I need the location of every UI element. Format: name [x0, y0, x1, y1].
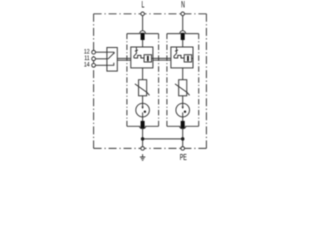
gas discharge tube F1 (module 1) [136, 103, 150, 117]
svg-text:L: L [142, 0, 145, 10]
varistor RV1 (module 1) [135, 80, 150, 96]
disconnector box U2 (module 2) [171, 47, 193, 68]
enclosure dash-dot border left [93, 14, 95, 149]
switch internals: contact 14 stub [107, 63, 114, 66]
plug contact bottom module 1 [140, 121, 146, 129]
svg-text:14: 14 [84, 62, 90, 68]
wires terminals 12 11 14 to switch box [95, 51, 107, 53]
terminal N circle [181, 12, 185, 16]
label 12 [84, 49, 90, 55]
varistor RV2 (module 2) [175, 80, 190, 96]
remote signalling switch box S1 [107, 48, 117, 72]
wire varistor to gas discharge tube module 1 [142, 96, 144, 104]
disconnector internals module 1 [134, 47, 153, 62]
svg-text:PE: PE [180, 153, 187, 163]
enclosure dash-dot border bottom [94, 147, 207, 149]
module 1 dashed box [127, 34, 159, 127]
wire N terminal down to top plug module 2 [182, 14, 184, 31]
ground symbol [140, 154, 145, 160]
wire GDT to bottom plug module 1 [142, 117, 144, 121]
terminal earth circle [141, 147, 145, 151]
label 11 [84, 56, 89, 62]
disconnector internals module 2 [174, 47, 193, 62]
label 14 [84, 62, 90, 68]
enclosure dash-dot border top [94, 13, 207, 15]
disconnector box U1 (module 1) [131, 47, 153, 68]
switch internals: contact 12 stub [107, 52, 114, 54]
wire bottom plug to junction module 2 [182, 129, 184, 147]
terminal L circle [141, 12, 145, 16]
svg-text:N: N [181, 0, 185, 10]
wire L terminal down to top plug module 1 [142, 14, 144, 31]
mechanical linkage double line: module 1 to module 2 [153, 58, 171, 60]
remote contact terminal circles 12 11 14 [92, 50, 96, 54]
label N [181, 0, 185, 10]
mechanical linkage double line: terminal box to module 1 [117, 58, 131, 60]
label L [142, 0, 145, 10]
label PE [180, 153, 187, 163]
plug contact bottom module 2 [180, 121, 186, 129]
switch internals: blade from 11 [107, 52, 115, 58]
wire GDT to bottom plug module 2 [182, 117, 184, 121]
wire disconnector to varistor module 2 [182, 68, 184, 80]
plug contact top module 1 [140, 31, 146, 40]
terminal PE circle [181, 147, 185, 151]
junction dot left [141, 137, 145, 141]
enclosure dash-dot border right [205, 14, 207, 149]
wire plug to disconnector box module 2 [182, 40, 184, 47]
bus wire between junctions [143, 138, 183, 140]
module 2 dashed box [167, 34, 199, 127]
svg-text:12: 12 [84, 49, 90, 55]
junction dot right [181, 137, 185, 141]
svg-text:11: 11 [84, 56, 89, 62]
wire plug to disconnector box module 1 [142, 40, 144, 47]
gas discharge tube F2 (module 2) [176, 103, 190, 117]
wire bottom plug to junction module 1 [142, 129, 144, 147]
plug contact top module 2 [180, 31, 186, 40]
wire disconnector to varistor module 1 [142, 68, 144, 80]
wire varistor to gas discharge tube module 2 [182, 96, 184, 104]
